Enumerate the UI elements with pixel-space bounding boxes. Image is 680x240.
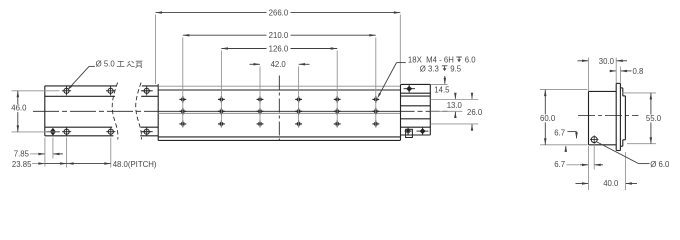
extension line 60 bottom [540,144,588,146]
extension line hole row top left [12,90,60,92]
tapped hole M4 col3 row2 [257,110,264,112]
tapped hole M4 col5 row1 [334,98,341,100]
svg-text:0.8: 0.8 [633,67,644,76]
svg-text:210.0: 210.0 [269,31,289,40]
table top edge [158,89,400,91]
dimension 40.0 [576,183,589,185]
svg-text:6.7: 6.7 [554,160,565,169]
leader dia 5.0 [68,66,89,89]
tapped hole M4 col6 row1 [372,98,379,100]
tapped hole M4 col2 row2 [218,110,225,112]
dimension 55.0 [650,93,652,144]
svg-text:40.0: 40.0 [603,179,619,188]
dimension 46.0 [17,91,19,132]
svg-text:18X M4 - 6H: 18X M4 - 6H [408,56,454,65]
pattern vertical centerline [278,76,280,142]
dimension 42.0 [250,63,260,65]
table hidden top edge [158,85,400,87]
extension line col5 [336,51,338,128]
svg-text:126.0: 126.0 [269,45,289,54]
extension line col3 [259,67,261,128]
counterbore hole left-top 2 [108,88,113,93]
extension line col2 [220,51,222,128]
right end block outline [401,83,431,85]
break line 1 [112,83,118,140]
centerline left [33,110,158,112]
tapped hole M4 col6 row2 [372,110,379,112]
tapped hole M4 col3 row1 [257,98,264,100]
extension line col6 [375,38,377,128]
svg-text:7.85: 7.85 [14,149,30,158]
extension line rail left edge [44,138,46,167]
table mid edge [158,110,400,112]
side view centerline [578,115,639,117]
svg-text:9.5: 9.5 [450,64,462,73]
extension line 40 right [624,152,626,190]
counterbore hole mid-top [144,88,149,93]
extension line table top right [431,83,448,85]
datum hole left-bottom (filled) [50,128,56,136]
svg-text:48.0(PITCH): 48.0(PITCH) [113,160,157,169]
dimension 48.0 pitch [67,162,74,165]
right end bottom pocket [406,129,413,137]
tapped hole M4 col1 row1 [179,98,186,100]
tapped hole M4 col5 row2 [334,110,341,112]
extension line row2 right [431,110,463,112]
tapped hole M4 col6 row3 [372,123,379,125]
counterbore hole left-bottom 3 [108,129,113,134]
svg-text:266.0: 266.0 [269,9,289,18]
tapped hole M4 col4 row2 [295,110,302,112]
counterbore hole left-bottom 2 [64,129,69,134]
extension line hole b3 [110,138,112,168]
extension line 55 top [622,92,656,94]
right end bottom hole 2 [420,128,426,134]
extension line hole b1 [52,138,54,159]
svg-text:23.85: 23.85 [12,160,32,169]
leader dia 6.0 [597,142,639,164]
tapped hole M4 col2 row3 [218,123,225,125]
extension line 266 right [399,15,401,84]
svg-text:55.0: 55.0 [646,114,662,123]
table right edge [400,84,402,140]
svg-text:6.0: 6.0 [465,56,477,65]
side view body outline [589,90,617,92]
extension line col4 [298,67,300,128]
svg-text:46.0: 46.0 [11,104,27,113]
tapped hole M4 col1 row2 [179,110,186,112]
side view plate [615,83,617,150]
dimension 60.0 [544,90,546,145]
extension line 60 top [540,89,588,91]
svg-text:Ø 6.0: Ø 6.0 [650,160,670,169]
extension line 266 left [155,15,157,85]
extension line side plate [615,58,617,84]
extension line 55 bottom [627,143,656,145]
svg-text:Ø 5.0: Ø 5.0 [96,59,116,68]
extension line col1 [182,38,184,128]
dimension 26.0 [471,93,473,99]
counterbore hole left-top 1 [64,88,69,93]
extension line hole vert [593,144,595,170]
svg-text:14.5: 14.5 [434,86,450,95]
svg-text:13.0: 13.0 [447,101,463,110]
extension line side left [588,58,590,92]
side view hole dia 6 [591,137,597,143]
extension line row3 right [431,123,479,125]
table hidden mid edge [158,112,400,114]
counterbore hole mid-bottom [144,129,149,134]
svg-text:26.0: 26.0 [467,108,483,117]
right end bottom box [401,126,431,128]
extension line 0.8 [619,67,621,83]
tapped hole M4 col5 row3 [334,123,341,125]
dimension 14.5 [444,76,446,84]
right end bottom hole 1 [405,130,412,132]
tapped hole M4 col4 row3 [295,123,302,125]
extension line hole b2 [66,138,68,168]
side view flange tab [620,87,622,89]
table bottom edge lower [158,139,400,141]
table bottom edge upper [158,136,400,138]
break line 2 [136,83,142,140]
svg-text:60.0: 60.0 [540,114,556,123]
tapped hole M4 col1 row3 [179,123,186,125]
tapped hole M4 col3 row3 [257,123,264,125]
extension line body left vert [588,146,590,190]
tapped hole M4 col2 row1 [218,98,225,100]
svg-text:42.0: 42.0 [271,60,287,69]
centerline right stub [401,110,448,112]
dimension 126.0 [221,48,266,50]
svg-text:30.0: 30.0 [599,57,615,66]
leader 18X M4 [397,62,406,64]
extension line row1 right [431,99,479,101]
dimension 210.0 [183,34,267,36]
svg-text:Ø 3.3: Ø 3.3 [420,64,439,73]
extension line hole row bottom left [12,131,60,133]
table left edge [157,84,159,140]
tapped hole M4 col4 row1 [295,98,302,100]
dimension 266.0 [156,12,267,14]
right end cap hole [406,86,412,92]
dimension 30.0 [578,60,589,62]
svg-text:6.7: 6.7 [554,128,565,137]
dimension 0.8 [610,70,616,72]
rail base left segment outline [45,85,116,87]
rail base segment after break [142,85,158,87]
dimension 13.0 [454,93,456,99]
